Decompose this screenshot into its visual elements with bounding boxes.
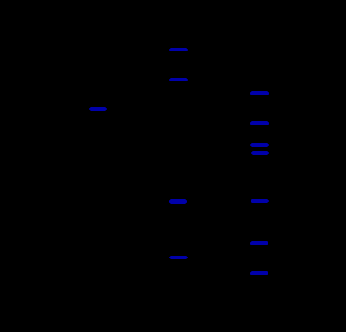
value label L1 line 1 [251, 143, 268, 147]
resistor R6 [235, 266, 245, 290]
value label R1 [170, 48, 187, 51]
wire top supply rail [100, 39, 240, 41]
resistor R2 [195, 76, 205, 100]
inductor L1 [240, 142, 243, 158]
wire bottom ground rail [100, 299, 280, 301]
capacitor C3 [118, 108, 124, 122]
resistor R5 [235, 118, 245, 142]
value label R3 [170, 256, 187, 259]
value label C3 [90, 107, 107, 111]
value label R2 [170, 78, 187, 81]
resistor R4 [235, 88, 245, 112]
capacitor C1 [195, 198, 201, 212]
value label R5 [251, 121, 268, 125]
wire left branch [100, 40, 140, 115]
value label L1 line 2 [252, 151, 268, 156]
resistor R3 [195, 250, 205, 274]
value label Q1 [251, 199, 267, 203]
value label R6 [251, 271, 267, 275]
resistor R1 [195, 46, 205, 70]
ground [194, 300, 206, 311]
value label R4 [251, 91, 268, 95]
capacitor C2 [235, 240, 241, 254]
value label C2 [251, 241, 267, 245]
value label C1 [170, 199, 186, 204]
transistor Q1 [203, 188, 227, 212]
